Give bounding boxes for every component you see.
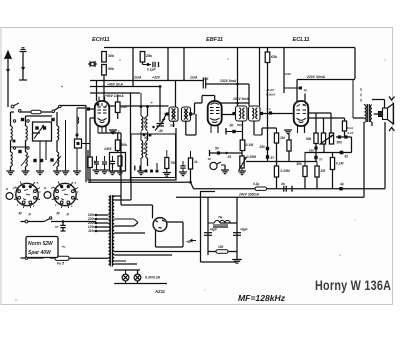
svg-text:+32V: +32V bbox=[152, 76, 161, 80]
svg-text:a: a bbox=[44, 186, 46, 190]
svg-text:50k: 50k bbox=[306, 137, 312, 141]
svg-text:+98V 1/2mA: +98V 1/2mA bbox=[105, 94, 124, 98]
svg-text:250: 250 bbox=[259, 145, 266, 149]
svg-text:152V 6mA: 152V 6mA bbox=[233, 97, 249, 101]
svg-text:100: 100 bbox=[218, 245, 224, 249]
svg-text:0.2µ: 0.2µ bbox=[253, 182, 259, 186]
svg-text:1k: 1k bbox=[194, 160, 198, 164]
svg-text:ECH11: ECH11 bbox=[92, 37, 110, 43]
svg-text:500: 500 bbox=[237, 123, 242, 127]
svg-text:500: 500 bbox=[170, 124, 175, 128]
svg-text:50: 50 bbox=[215, 147, 219, 151]
svg-text:4µ: 4µ bbox=[339, 182, 344, 186]
svg-text:EBF11: EBF11 bbox=[206, 37, 223, 43]
svg-text:2M: 2M bbox=[320, 169, 326, 173]
svg-text:0.25M: 0.25M bbox=[247, 155, 257, 159]
svg-text:50k: 50k bbox=[108, 67, 115, 71]
svg-text:750: 750 bbox=[171, 161, 177, 165]
svg-text:AZ11: AZ11 bbox=[154, 289, 166, 294]
svg-text:1/4W: 1/4W bbox=[104, 147, 112, 151]
svg-text:30k: 30k bbox=[108, 54, 115, 58]
svg-text:2mA: 2mA bbox=[346, 126, 354, 130]
svg-text:Fu 5: Fu 5 bbox=[57, 262, 64, 266]
svg-text:+8µF: +8µF bbox=[240, 228, 248, 232]
svg-text:50k: 50k bbox=[121, 143, 128, 147]
svg-text:Horny W 136A: Horny W 136A bbox=[315, 278, 391, 294]
svg-text:0.1: 0.1 bbox=[267, 107, 272, 111]
svg-text:18: 18 bbox=[208, 157, 212, 161]
svg-text:500: 500 bbox=[337, 141, 343, 145]
svg-text:1M: 1M bbox=[280, 136, 285, 140]
svg-text:0.1M: 0.1M bbox=[246, 143, 254, 147]
svg-text:0.27: 0.27 bbox=[348, 131, 354, 135]
svg-text:0.1M: 0.1M bbox=[336, 162, 344, 166]
svg-text:7H: 7H bbox=[218, 216, 223, 220]
svg-text:150: 150 bbox=[203, 77, 209, 81]
svg-text:250: 250 bbox=[120, 105, 127, 109]
svg-text:ECL11: ECL11 bbox=[293, 37, 310, 43]
svg-text:+8µF: +8µF bbox=[210, 228, 218, 232]
svg-text:MF=128kHz: MF=128kHz bbox=[238, 293, 286, 303]
svg-text:+96V 2mA: +96V 2mA bbox=[107, 83, 123, 87]
svg-text:~: ~ bbox=[62, 245, 66, 252]
svg-text:-30: -30 bbox=[158, 129, 163, 133]
svg-text:63k: 63k bbox=[271, 55, 278, 59]
svg-text:6.3V/0.3A: 6.3V/0.3A bbox=[145, 276, 161, 280]
svg-text:57: 57 bbox=[319, 158, 323, 162]
svg-text:242V 335mA: 242V 335mA bbox=[238, 193, 260, 197]
svg-text:57: 57 bbox=[271, 156, 275, 160]
svg-text:82: 82 bbox=[345, 155, 349, 159]
svg-text:+8.2V: +8.2V bbox=[266, 88, 275, 92]
svg-text:132V 8mA: 132V 8mA bbox=[220, 79, 237, 83]
svg-text:50k: 50k bbox=[297, 162, 303, 166]
svg-text:57: 57 bbox=[55, 225, 59, 229]
svg-text:50: 50 bbox=[230, 124, 234, 128]
svg-text:K: K bbox=[67, 213, 70, 217]
svg-text:0.25M: 0.25M bbox=[281, 169, 290, 173]
svg-text:25: 25 bbox=[227, 155, 232, 159]
svg-text:Norm 52W: Norm 52W bbox=[28, 241, 54, 247]
svg-text:2mA: 2mA bbox=[133, 76, 142, 80]
svg-text:Spar 40W: Spar 40W bbox=[28, 250, 52, 256]
svg-text:1µ: 1µ bbox=[304, 88, 308, 92]
svg-text:0.1µF: 0.1µF bbox=[147, 68, 156, 72]
svg-text:4n: 4n bbox=[280, 182, 285, 186]
svg-text:1mA: 1mA bbox=[190, 76, 198, 80]
svg-text:50: 50 bbox=[144, 136, 148, 140]
svg-text:220V 30mA: 220V 30mA bbox=[306, 75, 326, 79]
svg-text:0.3mA: 0.3mA bbox=[266, 93, 276, 97]
svg-text:25k: 25k bbox=[145, 54, 153, 58]
svg-text:a: a bbox=[6, 187, 8, 191]
svg-text:2/2V: 2/2V bbox=[284, 72, 292, 76]
svg-text:110v: 110v bbox=[88, 229, 95, 233]
svg-text:K: K bbox=[29, 213, 32, 217]
